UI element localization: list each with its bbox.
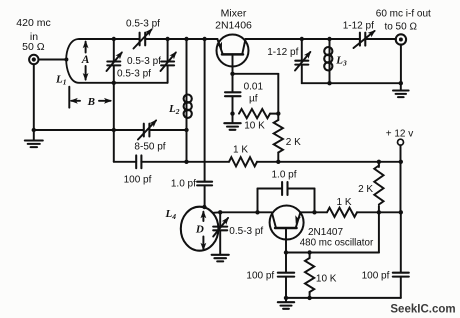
- svg-text:1.0 pf: 1.0 pf: [271, 170, 296, 181]
- node: [307, 296, 311, 300]
- svg-text:10 K: 10 K: [244, 121, 265, 132]
- svg-text:1-12 pf: 1-12 pf: [267, 47, 298, 58]
- svg-text:480 mc oscillator: 480 mc oscillator: [300, 237, 374, 248]
- ground: [33, 130, 35, 140]
- svg-text:0.5-3 pf: 0.5-3 pf: [229, 226, 263, 237]
- wire: [141, 161, 229, 163]
- svg-text:1 K: 1 K: [233, 144, 248, 155]
- node: [300, 37, 304, 41]
- wire bottom rail: [286, 297, 401, 299]
- wire: [186, 130, 188, 162]
- svg-text:100 pf: 100 pf: [246, 270, 274, 281]
- node input ground corner: [32, 128, 36, 132]
- inductor L1 hairpin line: [66, 39, 167, 83]
- wire: [277, 74, 279, 120]
- transistor Q1 mixer 2N1406: [217, 35, 249, 67]
- wire: [114, 161, 136, 163]
- svg-text:2 K: 2 K: [286, 137, 301, 148]
- wire: [300, 211, 327, 213]
- svg-text:100 pf: 100 pf: [362, 270, 390, 281]
- wire emitter rail: [79, 38, 140, 40]
- wire: [34, 129, 144, 131]
- svg-text:100 pf: 100 pf: [124, 175, 152, 186]
- svg-text:A: A: [81, 54, 90, 66]
- capacitor 0.5-3pf series in rail: [139, 33, 141, 46]
- svg-text:2N1406: 2N1406: [215, 20, 252, 32]
- dimension arrow A: [85, 42, 87, 53]
- node: [112, 128, 116, 132]
- capacitor 100pf: [135, 155, 137, 168]
- capacitor 100pf left: [285, 253, 287, 273]
- capacitor 8-50pf variable: [143, 124, 145, 137]
- wire: [233, 73, 279, 75]
- wire: [286, 252, 379, 254]
- svg-text:D: D: [195, 224, 204, 236]
- node: [327, 37, 331, 41]
- node: [112, 37, 116, 41]
- connector J2 output: [396, 34, 406, 44]
- wire: [378, 212, 380, 252]
- resistor R 1K mixer: [229, 157, 257, 166]
- node: [377, 160, 381, 164]
- node: [377, 210, 381, 214]
- connector J1 420mc input: [29, 55, 38, 64]
- ground mixer base: [232, 114, 234, 123]
- node: [184, 37, 188, 41]
- svg-text:1 K: 1 K: [336, 197, 351, 208]
- resistor R 10K mixer: [239, 109, 270, 118]
- node: [276, 160, 280, 164]
- ground output: [400, 83, 402, 90]
- wire L4 coupling: [204, 39, 206, 182]
- capacitor 100pf right: [393, 272, 409, 274]
- node base Q2: [284, 250, 288, 254]
- node: [230, 111, 234, 115]
- node: [202, 205, 206, 209]
- resistor R 2K mixer: [274, 120, 283, 153]
- inductor L4 loop: [181, 207, 219, 251]
- wire: [400, 212, 402, 272]
- svg-text:60 mc i-f out: 60 mc i-f out: [376, 9, 431, 20]
- svg-text:420 mc: 420 mc: [16, 17, 50, 29]
- wire: [400, 145, 402, 212]
- svg-text:8-50 pf: 8-50 pf: [134, 142, 165, 153]
- node base: [230, 72, 234, 76]
- node: [165, 37, 169, 41]
- wire collector rail: [246, 38, 360, 40]
- capacitor 1-12pf tank: [301, 39, 303, 61]
- transistor Q2 oscillator 2N1407: [270, 206, 304, 240]
- capacitor 0.01uf: [232, 74, 234, 92]
- wire: [257, 161, 401, 163]
- node: [399, 81, 403, 85]
- wire: [33, 64, 35, 130]
- node: [399, 210, 403, 214]
- svg-text:0.5-3 pf: 0.5-3 pf: [127, 56, 161, 67]
- svg-text:2 K: 2 K: [358, 184, 373, 195]
- ground oscillator tank: [212, 255, 229, 262]
- capacitor 0.5-3pf left branch: [113, 39, 115, 61]
- wire: [220, 211, 272, 213]
- node: [184, 160, 188, 164]
- capacitor 1.0pf feedback: [257, 189, 259, 213]
- resistor R 2K oscillator: [378, 162, 380, 167]
- wire tank bottom: [302, 82, 401, 84]
- capacitor 0.5-3pf oscillator: [219, 212, 221, 226]
- svg-text:0.01: 0.01: [244, 82, 264, 93]
- svg-text:to 50 Ω: to 50 Ω: [384, 22, 417, 33]
- inductor L3: [329, 39, 331, 83]
- svg-text:1.0 pf: 1.0 pf: [171, 179, 196, 190]
- svg-text:2N1407: 2N1407: [308, 227, 343, 238]
- node: [327, 81, 331, 85]
- node: [202, 37, 206, 41]
- node: [276, 111, 280, 115]
- node: [399, 160, 403, 164]
- dimension B: [68, 87, 70, 108]
- capacitor 1.0pf coupling: [197, 181, 212, 183]
- svg-text:SeekIC.com: SeekIC.com: [390, 304, 455, 316]
- node: [255, 210, 259, 214]
- ground bottom: [285, 298, 287, 302]
- svg-text:10 K: 10 K: [316, 274, 337, 285]
- inductor L2: [186, 39, 188, 130]
- dimension arrow D: [202, 212, 204, 221]
- wire: [400, 44, 402, 83]
- node: [312, 210, 316, 214]
- wire: [39, 59, 67, 61]
- node: [284, 296, 288, 300]
- svg-text:1-12 pf: 1-12 pf: [343, 21, 374, 32]
- capacitor 0.5-3pf middle branch: [167, 39, 169, 61]
- svg-text:0.5-3 pf: 0.5-3 pf: [117, 69, 151, 80]
- svg-text:µf: µf: [249, 94, 258, 105]
- svg-text:0.5-3 pf: 0.5-3 pf: [126, 19, 160, 30]
- svg-text:+ 12 v: + 12 v: [386, 129, 414, 140]
- svg-text:50 Ω: 50 Ω: [22, 41, 45, 53]
- resistor R 1K oscillator: [327, 208, 357, 217]
- node hairpin bottom junction: [112, 81, 116, 85]
- capacitor 1-12pf series output: [359, 33, 361, 46]
- resistor R 10K oscillator: [309, 253, 311, 259]
- node: [184, 128, 188, 132]
- svg-text:B: B: [87, 96, 95, 108]
- node: [307, 250, 311, 254]
- svg-text:Mixer: Mixer: [221, 8, 247, 20]
- node L4 tap: [218, 210, 222, 214]
